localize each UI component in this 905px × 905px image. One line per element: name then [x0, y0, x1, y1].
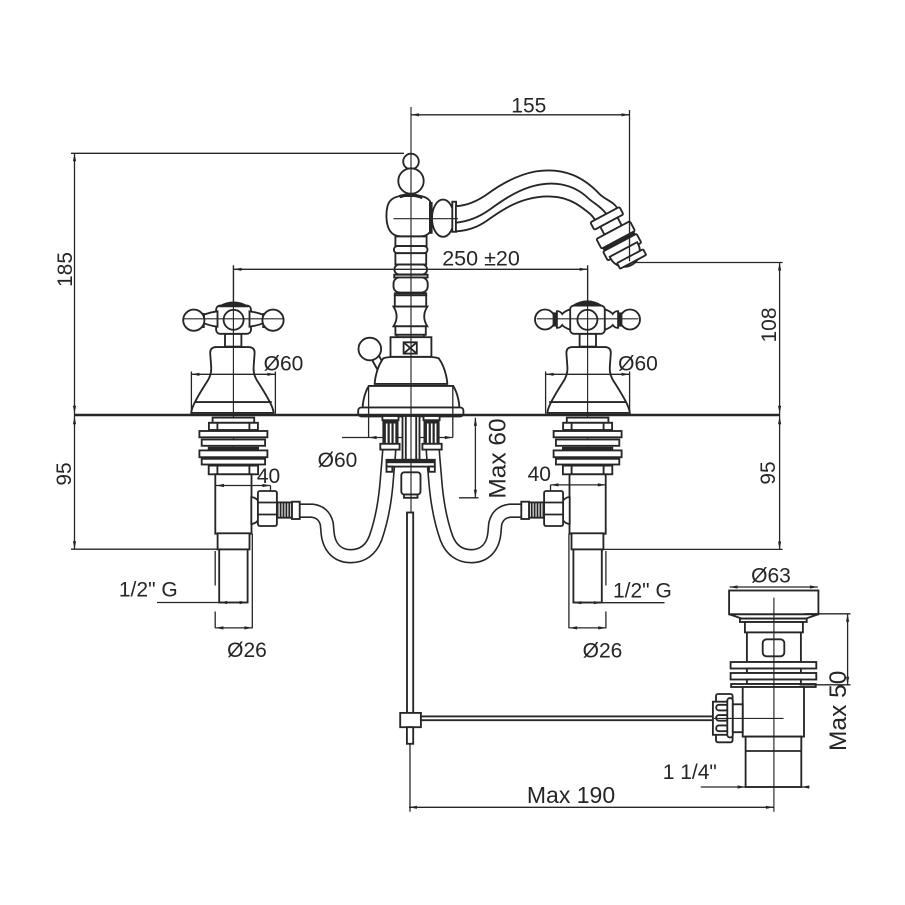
column hourglass waist [394, 307, 428, 327]
right handle vertical centerline [587, 266, 589, 561]
drain square hole [763, 639, 785, 656]
leader 1/2" G right [573, 602, 664, 604]
drain flange bevel [729, 614, 818, 618]
svg-text:95: 95 [757, 461, 780, 484]
left shank side hex nut [258, 491, 277, 526]
arrow Ø60 center right [445, 436, 453, 439]
faucet vertical centerline [410, 107, 412, 513]
right handle inner spoke [557, 309, 570, 330]
faucet body [386, 196, 430, 236]
drain vertical centerline [773, 598, 775, 812]
right shank washer C [554, 450, 622, 457]
escutcheon block [391, 337, 432, 357]
right supply hose (outlined tube) [433, 450, 522, 556]
left shank side hemisphere [251, 497, 260, 524]
aerator assembly [588, 206, 648, 274]
left handle stem [225, 334, 241, 347]
column torus ring 1 [394, 246, 428, 253]
dimension Ø60 center-base line [342, 437, 453, 439]
svg-text:Max 60: Max 60 [485, 418, 512, 498]
svg-text:40: 40 [257, 465, 280, 488]
column dome tier 1 [375, 357, 448, 384]
right handle horizontal centerline [537, 318, 639, 320]
right shank hose ferrule [521, 502, 529, 519]
extension bottom (95 left) [71, 548, 219, 550]
right handle cap (dark) [573, 301, 601, 305]
right handle inner collar [553, 312, 557, 326]
left handle right spoke [250, 311, 264, 326]
spout inner wall line [456, 184, 606, 223]
drain tailpipe joint line [746, 750, 802, 752]
left handle left ball [183, 310, 204, 331]
left shank collar [218, 533, 250, 549]
mounting plate left tab [387, 467, 393, 472]
left handle left collar [201, 313, 205, 328]
right shank dark band [562, 447, 613, 450]
column segment 3 [395, 326, 425, 335]
drain body segment 2 [747, 680, 801, 685]
faucet second ball [398, 168, 423, 193]
column base ring [358, 408, 463, 417]
drain neck B [745, 622, 803, 632]
right handle hub [570, 306, 605, 334]
left shank threaded tube [215, 474, 251, 533]
right handle outer ball [620, 310, 640, 330]
dimension 40 left [216, 485, 271, 487]
right handle inner ball [535, 310, 555, 330]
column thin ring 2 [395, 293, 426, 295]
right shank side hex nut [544, 491, 563, 526]
faucet body dark top arc [400, 195, 423, 198]
extension bottom (95 right) [603, 548, 782, 550]
right handle outer spoke [605, 309, 618, 330]
svg-text:Ø60: Ø60 [318, 449, 358, 472]
dimension Max 50 [847, 614, 849, 685]
left shank washer B [202, 440, 265, 446]
extension top (185) [71, 152, 404, 154]
drain upper body [747, 632, 801, 662]
right stud threaded block [424, 420, 440, 444]
spout tube [456, 170, 617, 231]
mounting plate [387, 460, 435, 467]
svg-text:1 1/4": 1 1/4" [663, 761, 717, 784]
left handle bell base line [195, 401, 272, 403]
svg-text:Ø60: Ø60 [264, 353, 304, 376]
left stud collar [380, 444, 399, 450]
center nut [401, 472, 420, 494]
drain tailpipe [746, 737, 802, 787]
svg-text:Ø26: Ø26 [227, 639, 267, 662]
dimension 1 1/4" [701, 786, 810, 788]
left shank hose ferrule [292, 502, 300, 519]
deck / countertop line [75, 414, 780, 416]
right shank corrugated connector [529, 502, 544, 517]
svg-text:Max 50: Max 50 [825, 671, 852, 751]
dimension Max 190 [409, 806, 774, 808]
drain flange [729, 591, 818, 615]
tailpiece inner lines [406, 416, 416, 460]
right handle bell base line [549, 401, 626, 403]
column thin ring [394, 275, 427, 278]
knob slot 1 [716, 705, 728, 711]
extension top (108) [634, 262, 783, 264]
left shank washer D [202, 459, 265, 465]
left shank washer A [199, 431, 267, 437]
left handle right collar [262, 313, 266, 328]
right shank washer D [556, 459, 619, 465]
dimension Ø26 right [569, 627, 606, 629]
left handle vertical centerline [232, 266, 234, 561]
svg-text:1/2" G: 1/2" G [613, 580, 672, 603]
body horizontal centerline [394, 218, 459, 220]
left handle right ball [262, 310, 283, 331]
left handle left spoke [204, 311, 218, 326]
left handle bell [191, 347, 273, 413]
svg-text:185: 185 [54, 252, 77, 287]
knob slot 2 [716, 715, 728, 721]
dimension 185 and 95 left line [74, 153, 76, 549]
right handle outer collar [618, 312, 622, 326]
dimension Ø60 center-base left extension [368, 387, 370, 438]
tailpiece outer [403, 416, 420, 460]
svg-text:1/2" G: 1/2" G [119, 579, 178, 602]
svg-text:95: 95 [53, 462, 76, 485]
right handle bell [547, 347, 629, 413]
right shank collar [572, 533, 604, 549]
left shank nut 2 [209, 466, 258, 475]
left shank corrugated connector [278, 502, 293, 517]
spout bulge [432, 200, 454, 237]
svg-text:Ø63: Ø63 [751, 565, 791, 588]
right handle stem [580, 334, 596, 347]
dimension 155 right extension [629, 110, 631, 261]
right shank threaded tube [570, 474, 606, 533]
right shank nut 2 [563, 466, 612, 475]
column step [397, 335, 424, 337]
knob front (knurled) [713, 702, 730, 735]
mounting plate right tab [429, 467, 435, 472]
drain washer 1 [731, 662, 817, 669]
drain washer 2 [731, 673, 817, 680]
column segment 2 [395, 295, 426, 306]
right shank washer A [554, 431, 622, 437]
left handle horizontal centerline [183, 318, 285, 320]
left stud threaded block [382, 420, 398, 444]
horizontal pull rod [421, 716, 717, 720]
center nut step [404, 495, 418, 498]
left handle hub [216, 306, 251, 334]
drain main body [743, 687, 804, 737]
left handle group [183, 266, 300, 603]
dimension Ø63 [730, 586, 818, 588]
column torus ring 2 [395, 265, 428, 275]
spout ferrule [452, 202, 456, 232]
svg-text:Ø60: Ø60 [618, 353, 658, 376]
left shank nut 1 [209, 423, 258, 430]
dimension Ø60 right line [546, 373, 630, 375]
column barrel bulge [394, 278, 428, 293]
left handle cap (dark) [219, 302, 248, 306]
left handle hub circle [224, 310, 244, 330]
aerator end cap [610, 242, 646, 272]
right shank nut 1 [563, 423, 612, 430]
dimension Ø60 left line [191, 373, 275, 375]
Max 190 left extension [409, 744, 411, 812]
right shank ring [567, 418, 609, 423]
dimension Ø26 left [215, 627, 252, 629]
aerator dark seal band [602, 231, 635, 251]
knob right stadium [727, 698, 733, 737]
left shank ring [213, 418, 255, 423]
left stud top [382, 416, 398, 420]
dimension 250 extensions [234, 265, 588, 302]
right handle hub circle [577, 310, 597, 330]
column segment 1 [395, 253, 426, 264]
svg-text:Max 190: Max 190 [527, 782, 615, 808]
knob back plate [716, 694, 733, 742]
right stud collar [422, 444, 441, 450]
drain body segment [747, 669, 801, 674]
column dome tier 2 [363, 386, 460, 408]
aerator tip ring [617, 249, 646, 269]
right shank washer B [556, 440, 619, 446]
arrow Ø60 center left [369, 436, 377, 439]
svg-text:108: 108 [758, 307, 781, 342]
left supply hose (outlined tube) [300, 450, 389, 556]
rod junction block [400, 713, 421, 727]
aerator neck [600, 218, 622, 235]
drain horizontal centerline [714, 717, 784, 719]
drain lever stem [372, 356, 388, 376]
pop-up rod [407, 513, 413, 713]
aerator ring 1 [590, 207, 623, 230]
right shank side hemisphere [561, 497, 570, 524]
dimension 40 right [551, 484, 606, 486]
dimension 250 ±20 line [234, 268, 588, 270]
drain washer 3 [731, 684, 816, 687]
svg-text:40: 40 [528, 463, 551, 486]
left shank dark band [208, 447, 259, 450]
right handle group (mirrored) [521, 266, 640, 603]
column waist under body [395, 237, 426, 247]
svg-text:Ø26: Ø26 [583, 640, 623, 663]
crossed box symbol [404, 342, 417, 353]
faucet top ball [403, 154, 419, 170]
dimension Max 60 line [474, 418, 476, 498]
aerator ring 2 [596, 221, 635, 249]
knob slot 3 [716, 725, 728, 731]
knob connector [733, 704, 743, 732]
drain lever ball [359, 338, 382, 361]
rod lower stub [407, 727, 413, 744]
spout junction rings [429, 202, 433, 234]
dimension 108 and 95 right line [779, 263, 781, 550]
svg-text:250 ±20: 250 ±20 [442, 246, 520, 270]
leader 1/2" G left [157, 602, 248, 604]
aerator ring 3 [603, 234, 641, 261]
svg-text:155: 155 [511, 94, 546, 117]
dimension Ø60 center-base right extension [452, 387, 454, 438]
dimension 155 line [411, 114, 630, 116]
right stud top [424, 416, 440, 420]
drain neck A [740, 619, 807, 622]
left shank lower tube [219, 549, 247, 602]
right shank lower tube [573, 549, 601, 602]
left shank washer C [199, 450, 267, 457]
